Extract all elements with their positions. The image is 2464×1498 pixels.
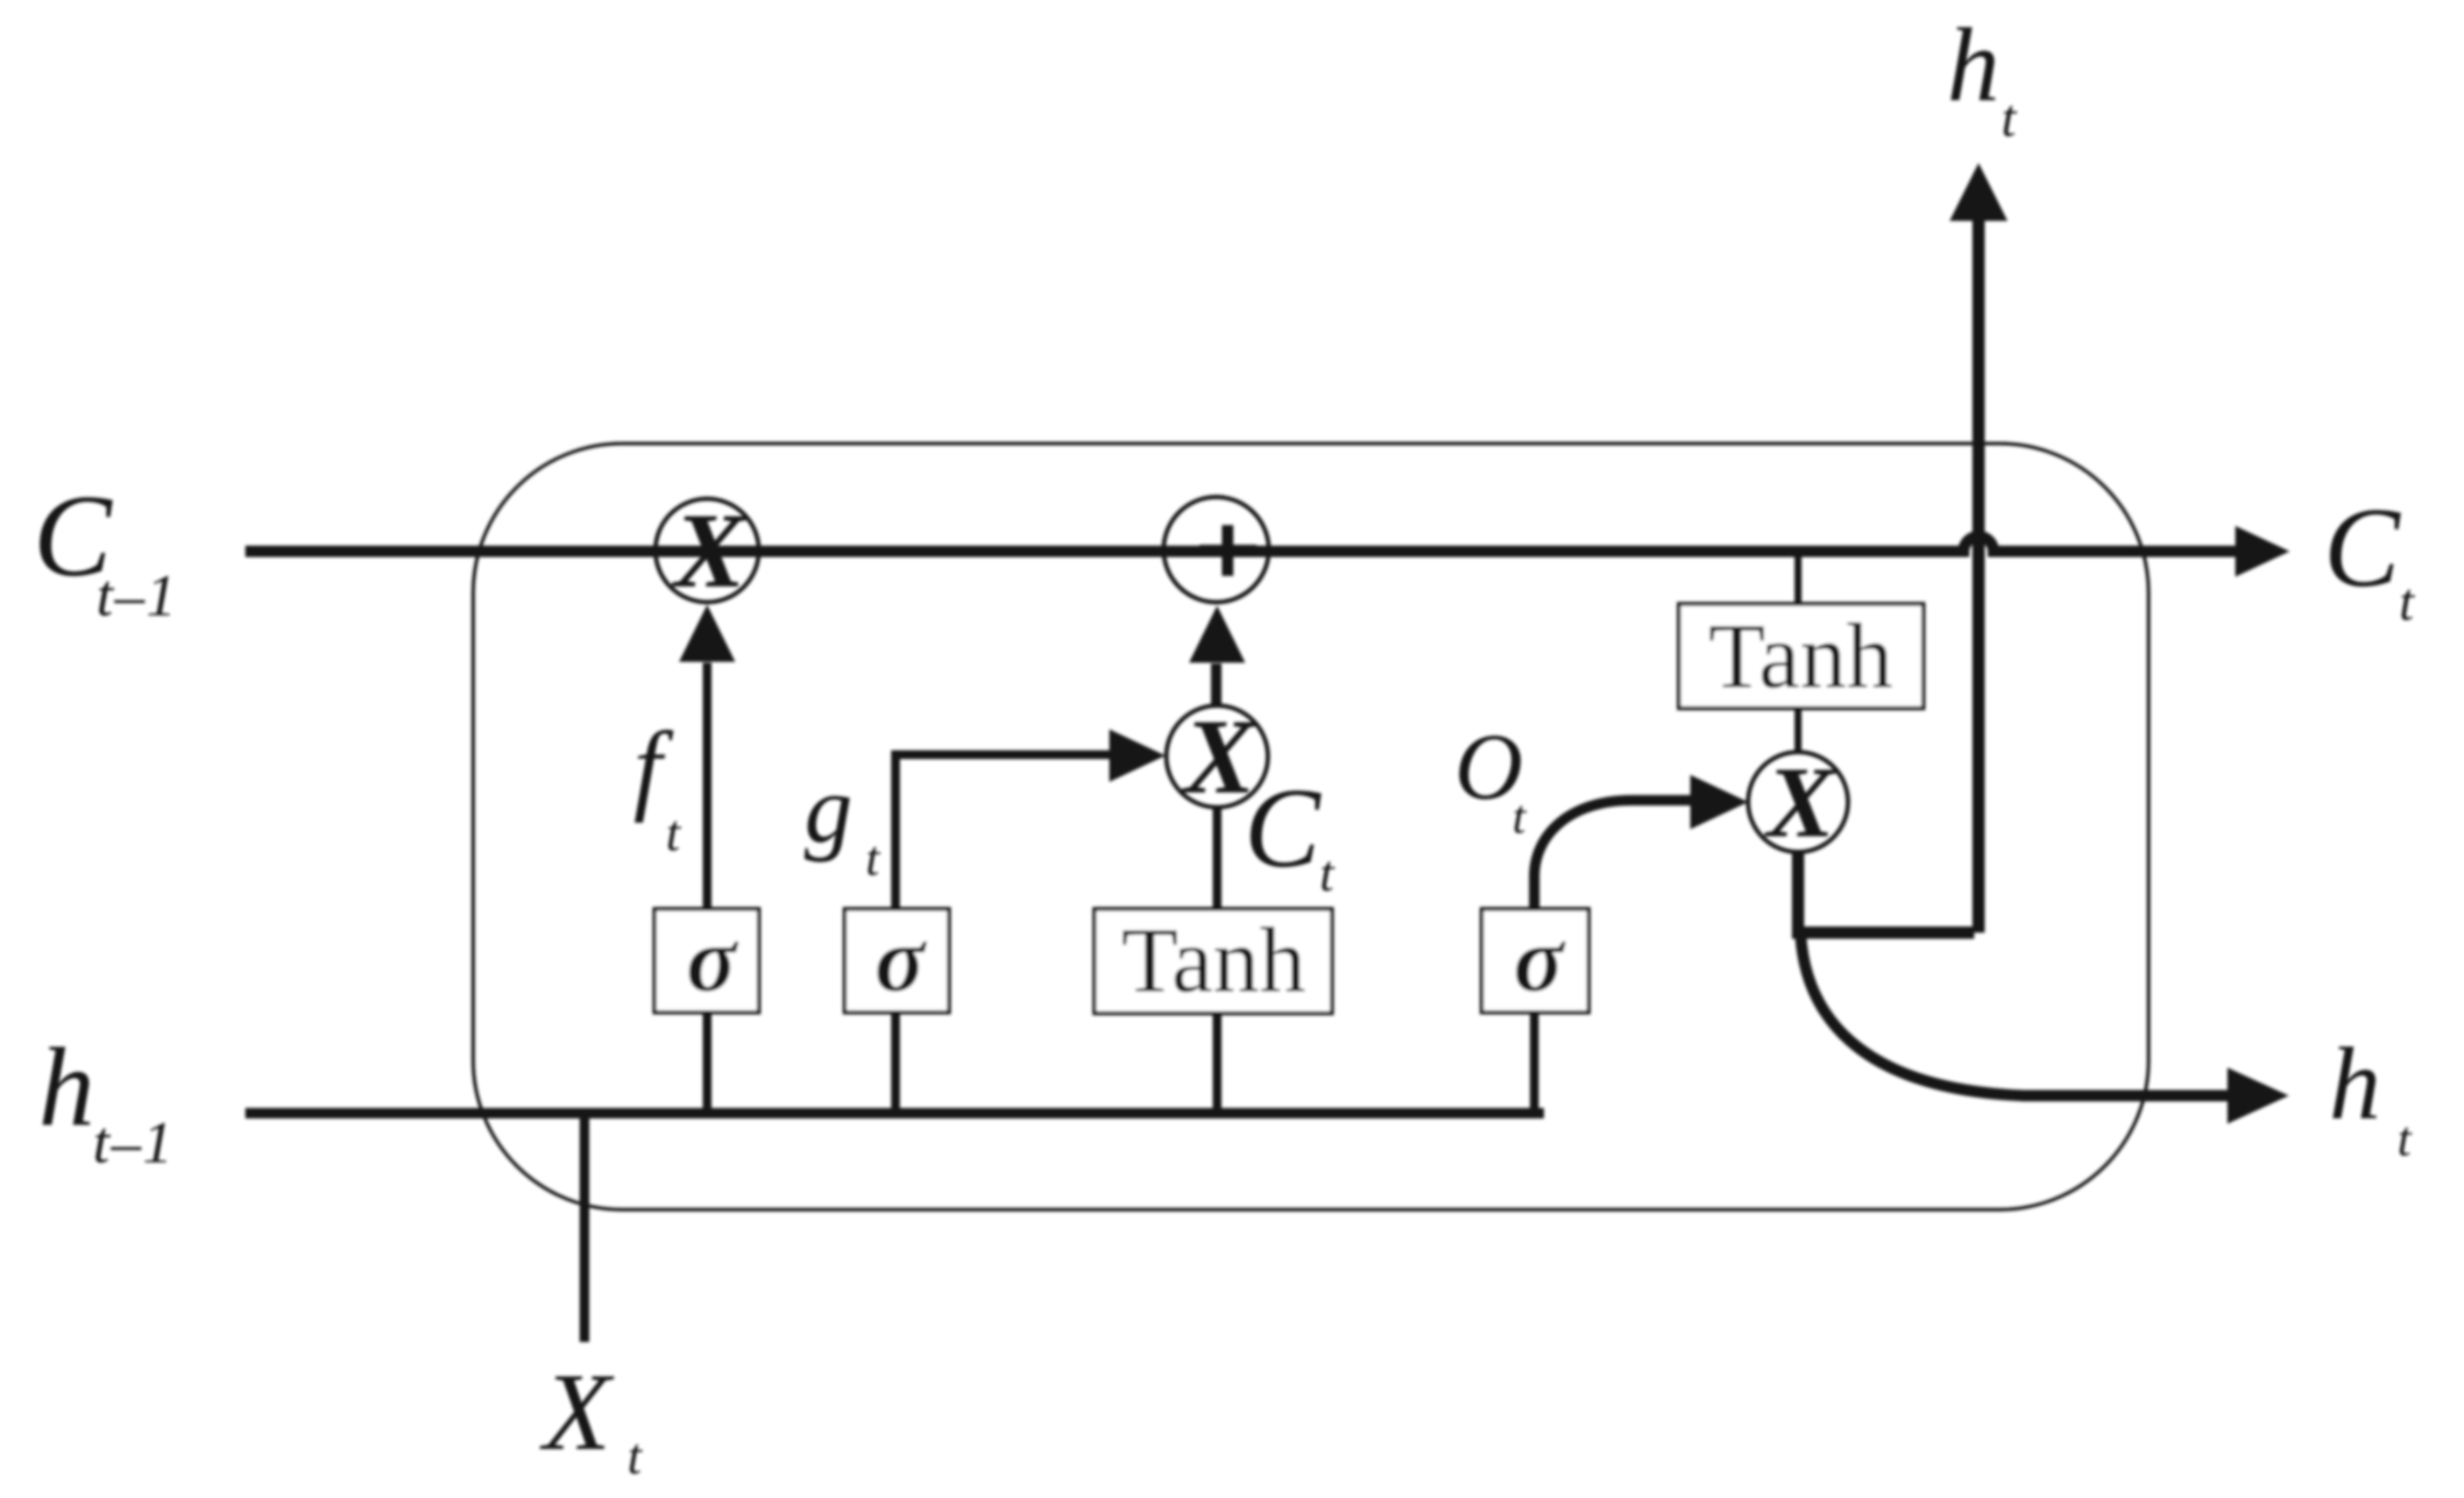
svg-text:h: h [2329,1026,2381,1141]
svg-text:Tanh: Tanh [1709,605,1893,707]
svg-text:σ: σ [874,908,927,1011]
svg-text:h: h [39,1025,95,1149]
svg-text:t–1: t–1 [93,1109,174,1175]
svg-text:g: g [804,756,853,863]
svg-text:t: t [627,1428,643,1485]
svg-text:t: t [1320,845,1335,902]
svg-text:t: t [2397,1112,2412,1167]
svg-text:t: t [1512,791,1527,843]
svg-text:t: t [2399,573,2415,631]
svg-text:t: t [2001,89,2017,147]
svg-text:Tanh: Tanh [1122,909,1306,1012]
svg-text:C: C [1244,765,1321,891]
svg-text:X: X [670,492,747,610]
svg-text:h: h [1947,6,2000,123]
svg-text:t: t [866,832,881,886]
svg-text:C: C [2324,485,2401,611]
svg-text:t: t [666,805,682,862]
svg-text:X: X [539,1352,615,1473]
svg-text:X: X [1764,747,1837,859]
svg-text:t–1: t–1 [96,562,178,628]
svg-text:σ: σ [686,908,739,1011]
svg-text:σ: σ [1513,908,1566,1011]
